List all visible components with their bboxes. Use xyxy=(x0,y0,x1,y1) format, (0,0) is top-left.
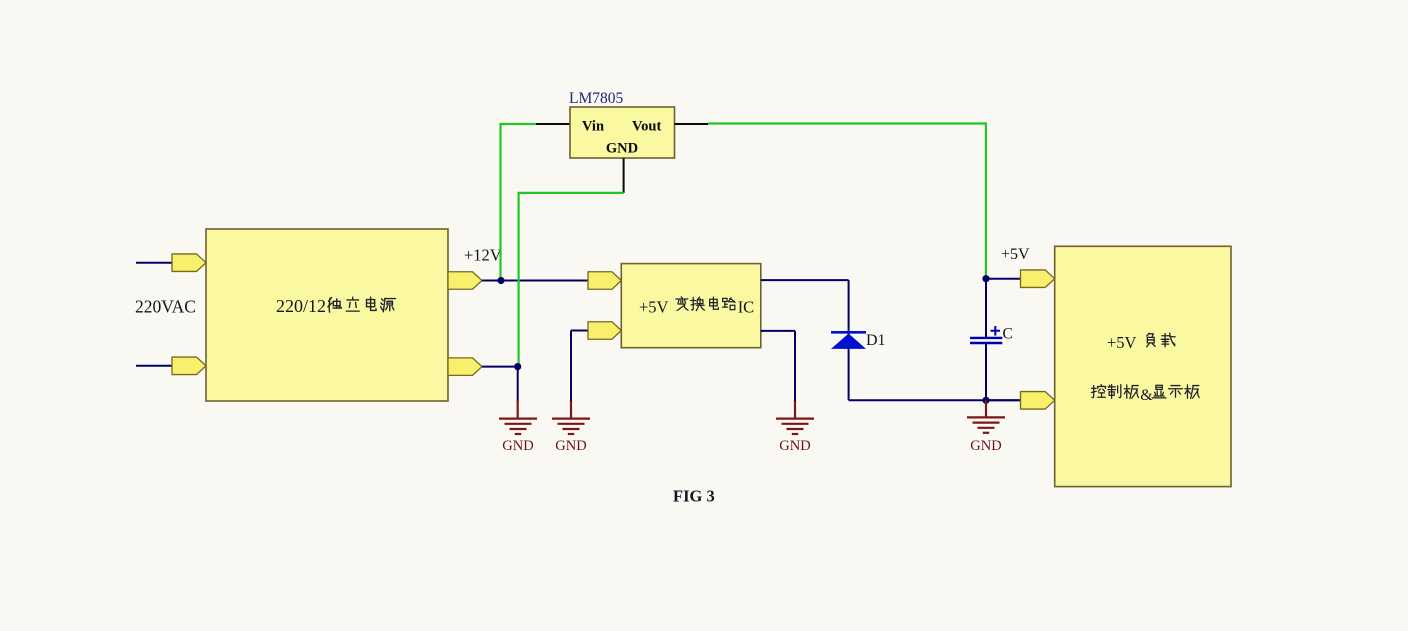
label C xyxy=(1003,326,1013,343)
block +5V load board xyxy=(1055,246,1231,486)
svg-text:GND: GND xyxy=(606,141,638,157)
net label +5V xyxy=(1001,246,1030,263)
terminal arrow gnd input of converter xyxy=(588,322,621,340)
wire xyxy=(794,331,796,403)
label LM7805 xyxy=(569,90,624,107)
wire xyxy=(761,279,849,281)
wire xyxy=(986,399,1021,401)
svg-text:&: & xyxy=(1140,387,1153,404)
svg-text:GND: GND xyxy=(970,438,1001,454)
pin label GND xyxy=(606,141,638,157)
label 220/12独立电源 xyxy=(276,296,396,316)
terminal arrow +5V into load xyxy=(1021,270,1055,288)
svg-text:220/12: 220/12 xyxy=(276,296,326,316)
wire xyxy=(985,343,987,400)
pin label Vout xyxy=(632,119,661,135)
diode D1 xyxy=(831,332,866,349)
svg-text:220VAC: 220VAC xyxy=(135,297,196,317)
pin label Vin xyxy=(582,119,604,135)
net label +12V xyxy=(464,246,502,265)
svg-text:FIG 3: FIG 3 xyxy=(673,487,715,506)
regulator U1 LM7805 xyxy=(570,107,675,158)
wire xyxy=(482,366,518,368)
wire xyxy=(482,280,588,282)
wire xyxy=(985,279,987,337)
green wire LM7805 GND return xyxy=(519,193,624,367)
ground stub xyxy=(517,400,519,418)
ground GND4 xyxy=(967,417,1005,454)
terminal arrow lower output xyxy=(448,358,482,376)
svg-text:+5V: +5V xyxy=(1001,246,1030,263)
svg-text:Vin: Vin xyxy=(582,119,604,135)
junction +5V node xyxy=(982,275,989,282)
green wire +12V to Vin xyxy=(501,124,537,281)
ground GND1 xyxy=(499,419,537,454)
svg-text:GND: GND xyxy=(555,438,586,454)
wire xyxy=(848,280,850,400)
pin wire Vin xyxy=(536,123,570,125)
label +5V 负载 xyxy=(1107,333,1175,352)
ground stub xyxy=(794,401,796,418)
wire xyxy=(136,262,172,264)
svg-text:LM7805: LM7805 xyxy=(569,90,624,107)
terminal arrow upper AC input xyxy=(172,254,206,272)
pin wire Vout xyxy=(675,123,709,125)
svg-text:+5V: +5V xyxy=(1107,333,1137,352)
green wire Vout to +5V node xyxy=(708,124,986,279)
svg-text:Vout: Vout xyxy=(632,119,661,135)
terminal arrow +12V input of converter xyxy=(588,272,621,290)
label D1 xyxy=(866,332,886,349)
wire xyxy=(986,278,1021,280)
wire xyxy=(136,365,172,367)
junction lower node xyxy=(514,363,521,370)
ground stub xyxy=(985,400,987,417)
terminal arrow +12V output xyxy=(448,272,482,290)
wire xyxy=(571,330,588,332)
junction +12V node xyxy=(497,277,504,284)
svg-text:+12V: +12V xyxy=(464,246,502,265)
wire xyxy=(570,331,572,404)
block 220/12 independent power supply xyxy=(206,229,448,401)
net label 220VAC xyxy=(135,297,196,317)
terminal arrow gnd into load xyxy=(1021,392,1055,410)
svg-text:IC: IC xyxy=(738,298,755,317)
label 控制板&显示板 xyxy=(1091,385,1199,404)
wire xyxy=(517,367,519,402)
pin wire GND xyxy=(623,158,625,193)
caption FIG 3 xyxy=(673,487,715,506)
junction gnd-rail node xyxy=(982,397,989,404)
ground GND2 xyxy=(552,419,590,454)
svg-text:D1: D1 xyxy=(866,332,886,349)
wire xyxy=(761,330,795,332)
terminal arrow lower AC input xyxy=(172,357,206,375)
svg-text:C: C xyxy=(1003,326,1013,343)
block +5V converter IC xyxy=(621,264,761,348)
capacitor C xyxy=(970,326,1002,343)
label +5V 变换电路IC xyxy=(639,297,754,317)
svg-text:GND: GND xyxy=(502,438,533,454)
svg-text:+5V: +5V xyxy=(639,298,669,317)
svg-text:GND: GND xyxy=(779,438,810,454)
wire xyxy=(849,399,1020,401)
ground GND3 xyxy=(776,419,814,454)
ground stub xyxy=(570,401,572,418)
